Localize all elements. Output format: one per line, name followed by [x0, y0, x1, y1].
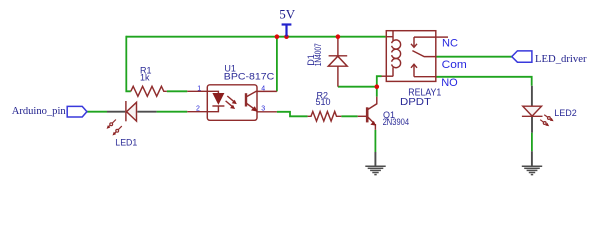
svg-text:BPC-817C: BPC-817C — [224, 72, 275, 82]
svg-text:NC: NC — [442, 38, 458, 50]
svg-text:NO: NO — [441, 77, 458, 89]
svg-text:510: 510 — [316, 97, 331, 107]
svg-text:LED2: LED2 — [554, 108, 577, 118]
svg-text:2N3904: 2N3904 — [383, 117, 410, 127]
svg-text:4: 4 — [261, 85, 265, 92]
svg-text:2: 2 — [196, 105, 200, 112]
svg-text:Com: Com — [442, 59, 467, 71]
svg-text:1: 1 — [197, 85, 201, 92]
svg-text:LED1: LED1 — [115, 137, 137, 147]
svg-text:5V: 5V — [279, 7, 296, 22]
svg-text:1N4007: 1N4007 — [313, 43, 323, 66]
svg-text:DPDT: DPDT — [400, 97, 431, 108]
svg-text:Arduino_pin: Arduino_pin — [12, 105, 66, 117]
svg-text:1k: 1k — [140, 73, 150, 83]
svg-text:LED_driver: LED_driver — [535, 53, 587, 65]
svg-text:3: 3 — [261, 105, 265, 112]
